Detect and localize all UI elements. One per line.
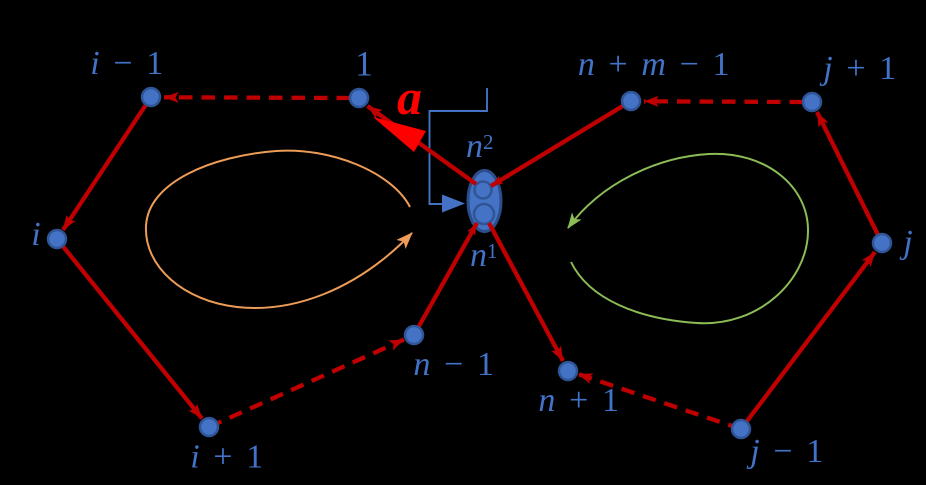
big red arrowhead on edge a bbox=[373, 117, 426, 152]
svg-text:i + 1: i + 1 bbox=[190, 439, 266, 476]
edge 1 to i-1 (dashed) bbox=[164, 95, 350, 100]
node j-1 bbox=[732, 420, 750, 438]
node j bbox=[873, 234, 891, 252]
inner circle n1 bbox=[474, 204, 494, 224]
edge n-1 to n1 (solid into ellipse) bbox=[414, 223, 477, 335]
edge i+1 to n-1 (dashed) bbox=[209, 340, 404, 428]
orange cycle arrow (left loop) bbox=[146, 151, 412, 308]
edge i-1 to i (solid) bbox=[63, 97, 151, 230]
node j+1 bbox=[803, 93, 821, 111]
edge j+1 to n+m-1 (dashed) bbox=[644, 99, 803, 104]
inner circle n2 bbox=[475, 182, 492, 199]
svg-text:j + 1: j + 1 bbox=[819, 50, 899, 87]
svg-text:a: a bbox=[397, 69, 422, 125]
edge j to j+1 (solid) bbox=[817, 112, 882, 243]
edge j-1 to j (solid) bbox=[741, 252, 875, 429]
edge n+m-1 to n2 (solid into ellipse) bbox=[491, 101, 631, 186]
edge a: n2 to node 1 (solid) bbox=[368, 106, 477, 184]
green cycle arrow (right loop) bbox=[568, 154, 808, 323]
svg-text:n + m − 1: n + m − 1 bbox=[578, 46, 732, 83]
blue pointer polyline into ellipse bbox=[430, 88, 488, 204]
blue pointer arrowhead bbox=[442, 195, 465, 213]
edge j-1 to n+1 (dashed) bbox=[578, 374, 741, 429]
central ellipse (merged node n1/n2) bbox=[468, 171, 501, 232]
svg-text:n + 1: n + 1 bbox=[538, 382, 621, 419]
node n+1 bbox=[559, 362, 577, 380]
edge n1 to n+1 (solid) bbox=[489, 223, 563, 361]
node i+1 bbox=[200, 418, 218, 436]
svg-text:1: 1 bbox=[355, 44, 373, 84]
node i bbox=[48, 230, 66, 248]
edge i to i+1 (solid) bbox=[57, 239, 202, 419]
svg-text:i − 1: i − 1 bbox=[90, 45, 166, 82]
svg-text:n − 1: n − 1 bbox=[413, 346, 496, 383]
node i-1 bbox=[142, 88, 160, 106]
svg-text:j − 1: j − 1 bbox=[746, 433, 826, 470]
node n-1 bbox=[405, 326, 423, 344]
node 1 bbox=[350, 89, 368, 107]
node n+m-1 bbox=[622, 92, 640, 110]
svg-text:i: i bbox=[31, 216, 40, 253]
